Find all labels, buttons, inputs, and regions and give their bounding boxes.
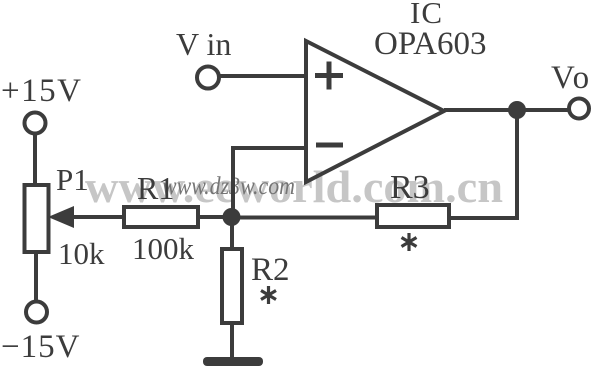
- P1 wiper arrow: [48, 206, 74, 228]
- svg-text:−15V: −15V: [1, 329, 80, 365]
- wire R3 to node B: [449, 216, 519, 220]
- potentiometer P1 body: [25, 185, 49, 252]
- svg-text:R2: R2: [251, 252, 290, 288]
- wire R2 to ground: [230, 323, 234, 361]
- op-amp minus sign: [316, 143, 343, 148]
- label R3 value star: [402, 233, 417, 251]
- wire output: [444, 108, 569, 112]
- wire wiper to R1: [70, 215, 124, 219]
- terminal Vo: [569, 99, 589, 119]
- svg-text:P1: P1: [56, 162, 89, 197]
- terminal +15V: [25, 113, 46, 134]
- ground: [203, 357, 263, 366]
- svg-text:+15V: +15V: [1, 73, 82, 109]
- svg-text:100k: 100k: [132, 231, 195, 266]
- op-amp plus sign: [315, 62, 343, 90]
- svg-text:OPA603: OPA603: [374, 26, 487, 62]
- terminal -15V: [26, 302, 47, 323]
- svg-text:Vo: Vo: [551, 60, 591, 96]
- op-amp U1 OPA603: [306, 41, 444, 182]
- resistor R1 body: [124, 207, 198, 227]
- wire V in to non-inverting input: [220, 74, 306, 78]
- terminal V in: [197, 67, 219, 89]
- resistor R3 body: [377, 205, 449, 227]
- wire node A to R3: [232, 216, 377, 220]
- resistor R2 body: [222, 249, 242, 323]
- svg-text:10k: 10k: [58, 236, 105, 271]
- node B junction dot: [508, 101, 526, 119]
- svg-text:R1: R1: [137, 170, 174, 206]
- wire P1 to -15V terminal: [34, 252, 38, 302]
- wire node B down to feedback rail: [515, 110, 519, 218]
- svg-text:www.dz3w.com: www.dz3w.com: [162, 173, 295, 200]
- node A junction dot: [223, 208, 241, 226]
- label R2 value star: [261, 286, 276, 304]
- wire node A to inverting input: [233, 148, 305, 217]
- wire +15V terminal to P1: [33, 134, 37, 186]
- svg-text:R3: R3: [390, 169, 430, 206]
- svg-text:V in: V in: [176, 26, 231, 62]
- wire R1 to node A: [198, 215, 232, 219]
- wire node A to R2: [230, 217, 234, 250]
